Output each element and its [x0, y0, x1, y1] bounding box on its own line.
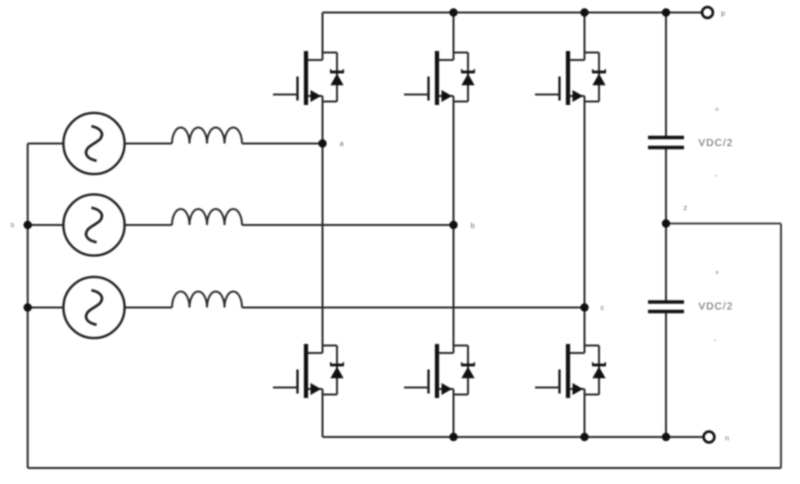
inductor L2 (phase b) [172, 209, 242, 225]
wire source a left stub [28, 143, 64, 145]
AC source V3 (phase c) [63, 277, 124, 338]
wire leg c lower source to n bus [584, 389, 586, 437]
terminal p (positive DC) [702, 7, 713, 18]
junction bottom rail / leg b [449, 433, 457, 441]
junction top rail / dc link [662, 8, 670, 16]
wire source b left stub [28, 224, 64, 226]
MOSFET Q3 (phase b upper) with body diode [404, 51, 475, 105]
junction top rail / leg b [449, 8, 457, 16]
wire leg a upper drain [322, 13, 324, 61]
MOSFET Q2 (phase a lower) with body diode [273, 344, 344, 398]
capacitor C2 (VDC/2 lower) [648, 302, 684, 312]
svg-text:+: + [715, 104, 720, 114]
wire leg b upper drain [453, 13, 455, 61]
wire leg c upper source to node c [584, 96, 586, 308]
wire z net horizontal [666, 223, 781, 225]
svg-text:VDC/2: VDC/2 [699, 302, 734, 313]
wire node c to lower drain [584, 308, 586, 354]
svg-text:VDC/2: VDC/2 [699, 138, 734, 149]
wire leg a lower source to n bus [322, 389, 324, 437]
wire source a to inductor [125, 143, 172, 145]
wire node a to lower drain [322, 144, 324, 354]
wire node b to lower drain [453, 225, 455, 353]
wire inductor Lc to node c [242, 307, 585, 309]
inductor L1 (phase a) [172, 128, 242, 144]
inductor L3 (phase c) [172, 292, 242, 308]
junction node z [662, 219, 670, 227]
wire top DC rail (p bus) [323, 12, 702, 14]
svg-text:-: - [714, 335, 717, 345]
wire bottom DC rail (n bus) [323, 436, 704, 438]
wire source c to inductor [125, 307, 172, 309]
junction bottom rail / dc link [662, 433, 670, 441]
MOSFET Q1 (phase a upper) with body diode [273, 51, 344, 105]
wire inductor Lb to node b [242, 224, 454, 226]
wire inductor La to node a [242, 143, 323, 145]
capacitor C1 (VDC/2 upper) [648, 138, 684, 148]
junction node a [318, 139, 326, 147]
svg-text:-: - [715, 171, 718, 181]
wire leg b lower source to n bus [453, 389, 455, 437]
svg-text:c: c [601, 303, 605, 312]
wire leg c upper drain [584, 13, 586, 61]
wire left source bus (s net) [27, 144, 29, 469]
wire source b to inductor [125, 224, 172, 226]
svg-text:a: a [340, 139, 345, 148]
terminal n (negative DC) [704, 432, 715, 443]
wire dc link branch upper [665, 13, 667, 137]
svg-text:z: z [684, 203, 688, 212]
MOSFET Q4 (phase b lower) with body diode [404, 344, 475, 398]
svg-text:+: + [715, 267, 720, 277]
junction left bus / source b [24, 221, 32, 229]
svg-text:p: p [721, 9, 725, 18]
svg-text:n: n [725, 434, 729, 443]
wire right return vertical [780, 224, 782, 469]
junction left bus / source c [24, 303, 32, 311]
wire dc link branch lower [665, 313, 667, 437]
wire source c left stub [28, 307, 64, 309]
junction node c [580, 303, 588, 311]
AC source V1 (phase a) [63, 113, 124, 174]
svg-text:s: s [11, 220, 15, 229]
wire bottom return (s to z loop) [28, 467, 781, 469]
wire leg b upper source to node b [453, 96, 455, 225]
wire dc link branch middle [665, 149, 667, 301]
junction top rail / leg c [580, 8, 588, 16]
MOSFET Q6 (phase c lower) with body diode [535, 344, 606, 398]
MOSFET Q5 (phase c upper) with body diode [535, 51, 606, 105]
junction bottom rail / leg c [580, 433, 588, 441]
junction node b [449, 221, 457, 229]
svg-text:b: b [471, 221, 475, 230]
AC source V2 (phase b) [63, 194, 124, 255]
wire leg a upper source to node a [322, 96, 324, 144]
